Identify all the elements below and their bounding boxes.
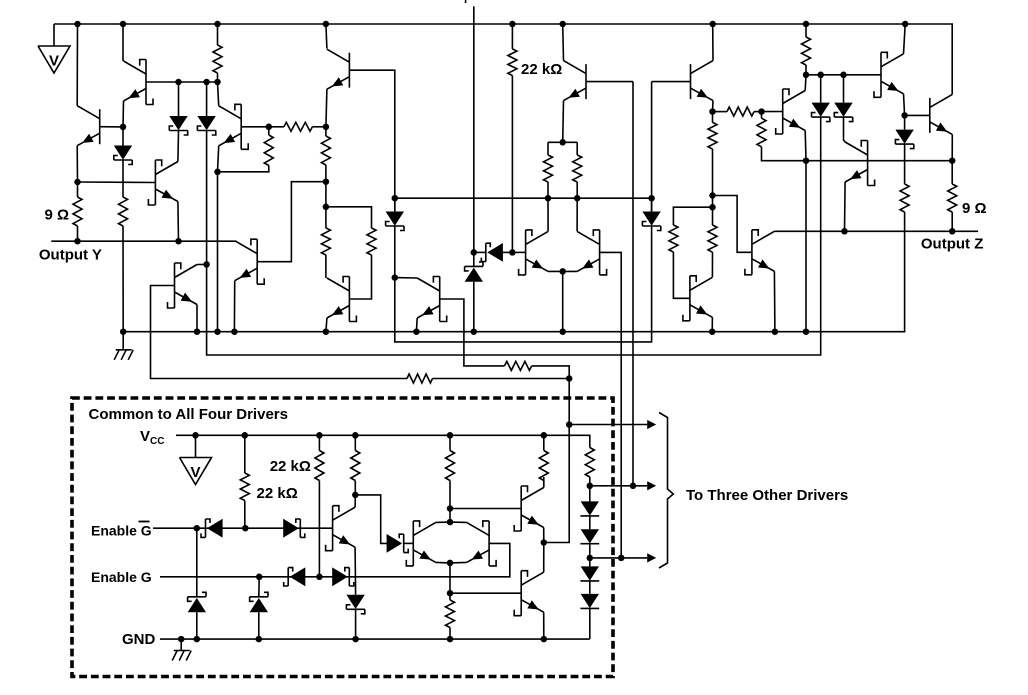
junction R22 bottom xyxy=(242,525,249,532)
wire Q2 collector up xyxy=(76,24,78,106)
wire R25 node to collectors xyxy=(449,509,451,523)
junction R14 bottom xyxy=(709,192,716,199)
wire Q9 emitter down xyxy=(415,318,418,332)
diode D1 xyxy=(169,116,187,135)
transistor Q13 xyxy=(691,61,714,101)
wire Q5 emitter down xyxy=(196,305,198,332)
wire D9 anode xyxy=(843,75,845,103)
wire node to node xyxy=(325,182,327,207)
svg-text:To Three Other Drivers: To Three Other Drivers xyxy=(686,487,848,504)
diode D3 xyxy=(114,146,132,165)
wire resistor pair top xyxy=(548,141,577,143)
resistor R17 xyxy=(727,107,754,116)
junction on rail xyxy=(772,328,779,335)
wire Q6 collector up xyxy=(218,82,219,106)
junction Q11 collector xyxy=(574,195,581,202)
wire stack seg4 xyxy=(589,558,591,567)
wire Q11 collector up xyxy=(576,198,578,231)
wire Q11 base line xyxy=(450,508,521,510)
wire R12 bottom lead xyxy=(547,182,549,198)
wire Q24 emitter down xyxy=(543,612,545,639)
diode D16 xyxy=(284,567,306,586)
transistor Q21 xyxy=(514,486,544,531)
wire Q8 emitter down xyxy=(326,318,327,332)
junction R5 bottom xyxy=(214,169,221,176)
diode D2 xyxy=(197,116,215,135)
wire Q12 base long line xyxy=(632,82,634,486)
transistor Q6 xyxy=(219,104,249,149)
wire Q22 emitter xyxy=(436,561,450,564)
transistor Q5 xyxy=(168,263,198,308)
junction Q10 base node xyxy=(509,249,516,256)
wire R8 bottom lead xyxy=(325,255,327,278)
wire Q12 base xyxy=(586,81,633,83)
svg-text:Output Y: Output Y xyxy=(39,247,102,264)
transistor Q11 xyxy=(577,230,607,275)
wire R20 bottom to rail xyxy=(123,212,904,332)
resistor R1 (bus) xyxy=(213,45,222,73)
junction arrow3 xyxy=(587,555,594,562)
junction node y82 xyxy=(214,79,221,86)
resistor R22 22k xyxy=(240,473,249,501)
junction on GND line xyxy=(352,636,359,643)
resistor R6 xyxy=(284,122,313,131)
resistor R19 xyxy=(802,37,811,65)
resistor R2 9ohm xyxy=(73,197,82,226)
wire node chain xyxy=(712,196,714,208)
wire Q24 collector up xyxy=(543,543,545,573)
junction on rail xyxy=(559,328,566,335)
junction R23 bottom xyxy=(316,574,323,581)
wire Gbar ESD down xyxy=(196,528,198,597)
junction Q5 collector node xyxy=(203,261,210,268)
junction on Vcc line xyxy=(541,432,548,439)
resistor R15 xyxy=(669,225,678,252)
wire Q3 emitter down xyxy=(177,202,180,242)
junction on V+ bus xyxy=(214,21,221,28)
wire D5 top xyxy=(651,198,653,211)
resistor R18 xyxy=(757,118,766,147)
wire R16 bottom xyxy=(711,252,713,277)
wire R9 to Q8 base xyxy=(349,255,371,299)
wire D2 cathode long line xyxy=(207,118,821,355)
junction on V+ bus xyxy=(803,21,810,28)
wire G ESD down xyxy=(258,577,260,597)
svg-text:Output Z: Output Z xyxy=(921,236,983,253)
diode D13 (up) xyxy=(188,592,206,612)
transistor Q19 xyxy=(845,141,875,186)
junction on rail xyxy=(231,328,238,335)
junction Q7 emitter node xyxy=(323,124,330,131)
wire Q18 emitter down xyxy=(951,134,953,160)
wire box ground lead xyxy=(180,639,182,650)
wire Q10 collector up xyxy=(547,198,549,231)
transistor Q7 xyxy=(327,49,350,89)
junction on rail xyxy=(323,328,330,335)
junction R2 on Output Y xyxy=(74,238,81,245)
wire R24 bottom lead xyxy=(354,481,356,495)
wire R23 bottom long xyxy=(318,481,320,577)
junction Enable Gbar xyxy=(194,525,201,532)
transistor Q20 xyxy=(326,506,356,551)
junction on V+ bus xyxy=(323,21,330,28)
junction emitters xyxy=(447,560,454,567)
wire Q7 collector up xyxy=(326,24,327,49)
junction on V+ bus xyxy=(709,21,716,28)
svg-text:22 kΩ: 22 kΩ xyxy=(521,61,562,78)
junction R28 top xyxy=(447,590,454,597)
transistor Q22 xyxy=(406,521,436,566)
wire branch right xyxy=(713,196,752,253)
wire D4 line top xyxy=(394,198,396,211)
junction input node xyxy=(471,249,478,256)
wire D1 anode xyxy=(178,82,180,116)
junction Enable G xyxy=(256,574,263,581)
resistor R7 xyxy=(321,136,330,165)
transistor Q18 xyxy=(930,94,953,134)
wire node182 to Q3 base xyxy=(78,181,156,184)
wire R22 bottom lead xyxy=(244,501,246,529)
resistor R4 (feedback) xyxy=(407,374,433,383)
svg-text:22 kΩ: 22 kΩ xyxy=(270,458,311,475)
diode D4 xyxy=(386,212,404,231)
wire Q23 collector xyxy=(450,521,467,523)
junction on D4 line xyxy=(392,274,399,281)
svg-text:VCC: VCC xyxy=(140,428,164,447)
diode D11 xyxy=(201,519,223,538)
arrow line 2 xyxy=(590,485,647,487)
wire input stub xyxy=(465,0,467,3)
transistor Q17 xyxy=(874,52,904,97)
wire Q7 base xyxy=(349,70,394,211)
wire R14 top lead xyxy=(712,112,714,123)
resistor R16 xyxy=(708,225,717,252)
junction on rail xyxy=(413,328,420,335)
wire to Q18 base xyxy=(905,114,930,116)
wire Q7 emitter down xyxy=(326,89,327,127)
junction Q13 emitter xyxy=(709,108,716,115)
wire D7 bottom xyxy=(473,282,475,332)
wire D6 cathode xyxy=(474,251,486,253)
wire V symbol lead 2 xyxy=(195,435,197,457)
wire Q15 emitter down xyxy=(773,271,776,331)
overline for Gbar xyxy=(139,521,150,523)
svg-text:9 Ω: 9 Ω xyxy=(962,200,987,217)
diode D6 xyxy=(481,243,503,262)
junction on GND line xyxy=(178,636,185,643)
wire R21 top lead xyxy=(951,161,953,184)
wire Q5 collector to node xyxy=(197,263,207,265)
transistor Q12 xyxy=(564,61,587,101)
diode D10 xyxy=(895,130,913,149)
wire Q20 collector up xyxy=(354,495,356,507)
wire Q16 emitter down xyxy=(804,131,807,161)
junction on rail xyxy=(709,328,716,335)
junction on GND line xyxy=(447,636,454,643)
wire R4 to Vcc node xyxy=(433,378,570,380)
svg-text:V: V xyxy=(190,464,200,481)
wire Q4 emitter down xyxy=(233,281,235,332)
junction arrow1 xyxy=(566,421,573,428)
diode D21 xyxy=(580,566,599,581)
diode D15 xyxy=(346,595,364,614)
junction on V+ bus xyxy=(509,21,516,28)
resistor R10 xyxy=(505,361,532,370)
wire Output Z line xyxy=(774,230,978,232)
junction on V+ bus xyxy=(902,21,909,28)
junction node y82 xyxy=(203,79,210,86)
junction R21 top xyxy=(949,157,956,164)
junction on Vcc line xyxy=(447,432,454,439)
wire Q6 base xyxy=(241,126,269,128)
wire Q17 emitter down xyxy=(904,94,905,116)
junction Q19 emitter on Output Z xyxy=(841,228,848,235)
wire T1 collector feed xyxy=(122,24,124,61)
bracket (brace) xyxy=(659,413,673,569)
wire R2 bottom lead xyxy=(77,226,79,241)
wire mirror line xyxy=(395,197,652,199)
wire R1 top lead xyxy=(217,24,219,45)
wire R13 top lead xyxy=(576,142,578,155)
wire R22 top lead xyxy=(244,435,246,473)
wire R7 bottom xyxy=(325,165,327,182)
wire center input line xyxy=(473,6,475,252)
wire Vcc line xyxy=(176,435,590,447)
resistor R13 xyxy=(573,155,582,182)
wire D4 bottom loop xyxy=(395,226,652,342)
svg-text:9 Ω: 9 Ω xyxy=(45,207,70,224)
wire Q23 emitter xyxy=(450,561,467,564)
transistor Q24 xyxy=(514,571,544,616)
svg-text:22 kΩ: 22 kΩ xyxy=(257,485,298,502)
resistor R3 xyxy=(119,197,128,226)
wire R26 top lead xyxy=(543,435,545,450)
wire Q2 emitter down xyxy=(76,146,78,182)
junction diode stack top xyxy=(587,483,594,490)
wire D2 anode xyxy=(206,82,208,116)
ground (box) xyxy=(172,651,191,661)
resistor R12 xyxy=(544,155,553,182)
junction R18 top xyxy=(758,108,765,115)
junction diff pair emitters xyxy=(559,268,566,275)
diode D18 (up) xyxy=(250,592,268,612)
junction node y82 xyxy=(175,79,182,86)
wire R18 bottom loop xyxy=(762,147,953,161)
wire R17 right lead xyxy=(754,111,762,113)
junction on rail xyxy=(214,328,221,335)
wire R8 top lead xyxy=(325,207,327,228)
wire R15 bottom to Q14 base xyxy=(673,252,690,298)
svg-text:GND: GND xyxy=(122,631,156,648)
wire Q2 base xyxy=(100,126,123,128)
junction arrow3 line xyxy=(618,555,625,562)
wire stack seg3 xyxy=(589,544,591,558)
wire D13 bottom xyxy=(196,612,198,639)
junction y160 left xyxy=(803,157,810,164)
junction arrow2 xyxy=(630,483,637,490)
svg-text:Common to All Four Drivers: Common to All Four Drivers xyxy=(89,406,288,423)
wire Q4 base loop xyxy=(257,182,326,262)
wire Q21 emitter down xyxy=(543,528,545,543)
wire Q9 base loop xyxy=(440,299,505,366)
wire R2 top lead xyxy=(77,182,79,197)
wire Q17 collector up xyxy=(904,24,906,54)
junction R2 top xyxy=(74,179,81,186)
wire Q22 collector xyxy=(436,521,450,523)
diode D5 xyxy=(642,212,660,231)
wire D8 anode xyxy=(820,75,822,103)
wire R7 leads xyxy=(325,127,327,136)
dashed box (Common to All Four Drivers) xyxy=(72,398,613,677)
schottky diode D1 xyxy=(0,0,1,1)
wire D3 anode xyxy=(122,127,124,146)
wire R27 bottom lead xyxy=(589,477,591,486)
wire bias feed xyxy=(544,379,569,543)
wire D3 cathode lead xyxy=(122,160,124,197)
wire R18 top lead xyxy=(761,112,763,119)
wire D6 anode xyxy=(502,251,513,253)
diode D14 xyxy=(387,534,409,553)
wire R14 bottom xyxy=(712,149,714,196)
junction Q4 base node xyxy=(323,178,330,185)
wire R11 top lead xyxy=(511,24,513,49)
wire Enable G line xyxy=(160,543,510,576)
wire R13 bottom lead xyxy=(576,182,578,198)
wire D7 top xyxy=(473,252,475,266)
wire R17 left lead xyxy=(713,111,728,113)
junction on rail xyxy=(471,328,478,335)
transistor Q1 xyxy=(124,60,154,105)
wire D9 cathode xyxy=(844,117,846,142)
wire D15 bottom xyxy=(355,610,357,640)
junction resistor pair top xyxy=(559,139,566,146)
wire to Q24 base xyxy=(450,592,521,594)
wire y75 line xyxy=(806,74,881,76)
junction R25 bottom xyxy=(447,505,454,512)
wire R16 top lead xyxy=(712,207,714,225)
wire Q13 emitter down xyxy=(712,101,715,112)
wire R19 bottom lead xyxy=(805,65,807,75)
wire R6 right lead xyxy=(312,126,326,128)
junction y75 xyxy=(840,72,847,79)
ground (rail) xyxy=(114,350,133,360)
wire R6 left lead xyxy=(269,126,284,128)
junction bias node xyxy=(566,375,573,382)
wire R9 branch xyxy=(326,207,372,228)
wire stack seg5 xyxy=(589,581,591,594)
wire Q16 collector up xyxy=(804,75,807,91)
resistor R20 xyxy=(900,184,909,212)
junction Q10 collector xyxy=(545,195,552,202)
wire R28 top lead xyxy=(449,593,451,600)
junction on rail xyxy=(120,328,127,335)
resistor R28 xyxy=(446,600,455,628)
junction on GND line xyxy=(194,636,201,643)
resistor R26 xyxy=(539,451,548,481)
wire Q21 collector up xyxy=(543,477,545,488)
diode D8 xyxy=(812,103,830,122)
junction R5 top xyxy=(266,124,273,131)
transistor Q10 xyxy=(519,230,549,275)
wire R26 bottom lead xyxy=(543,481,545,488)
transistor Q8 xyxy=(327,277,357,322)
resistor R27 xyxy=(585,448,594,478)
diode D9 xyxy=(834,103,852,122)
junction on V+ bus xyxy=(559,21,566,28)
wire Q9 collector xyxy=(395,277,417,279)
wire Q6 emitter down xyxy=(218,146,219,332)
wire emitters join xyxy=(548,270,577,272)
junction Q18 base xyxy=(901,112,908,119)
wire Q12 emitter down xyxy=(562,101,565,143)
resistor R8 xyxy=(321,228,330,255)
junction y75 xyxy=(817,72,824,79)
wire down to rail xyxy=(805,161,807,332)
wire R24 top lead xyxy=(354,435,356,450)
junction on Vcc line xyxy=(242,432,249,439)
wire emitters down xyxy=(449,563,451,593)
junction on rail xyxy=(803,328,810,335)
wire R28 bottom lead xyxy=(449,628,451,640)
transistor Q9 xyxy=(417,277,447,322)
wire R5 top lead xyxy=(268,127,270,135)
power symbol V (top left) xyxy=(38,46,70,73)
wire Q14 emitter down xyxy=(711,317,713,331)
junction y75 xyxy=(803,72,810,79)
wire R19 top lead xyxy=(805,24,807,37)
junction on Vcc line xyxy=(192,432,199,439)
wire V symbol lead xyxy=(53,24,55,46)
wire R1 bottom lead xyxy=(217,73,219,82)
diode D20 xyxy=(580,529,599,544)
svg-text:Enable G: Enable G xyxy=(91,523,152,539)
power symbol V (box) xyxy=(180,458,212,485)
junction Q21 emitter node xyxy=(541,539,548,546)
svg-text:Enable G: Enable G xyxy=(91,569,152,585)
transistor Q3 xyxy=(148,160,178,205)
junction on V+ bus xyxy=(120,21,127,28)
wire stack seg1 xyxy=(589,486,591,504)
wire R10 to Vcc node xyxy=(532,366,570,379)
resistor R9 xyxy=(367,228,376,255)
wire R11 bottom long xyxy=(511,76,513,253)
arrow line 1 xyxy=(569,424,647,426)
wire Enable Gbar line xyxy=(153,527,333,529)
diode D7 (up) xyxy=(465,262,483,282)
resistor R25 xyxy=(446,451,455,481)
wire Q12 collector up xyxy=(562,24,565,61)
resistor R11 22k xyxy=(508,49,517,76)
wire Output Y line xyxy=(51,240,234,242)
wire Q13 base xyxy=(652,81,691,83)
transistor Q16 xyxy=(776,89,806,134)
junction on rail xyxy=(194,328,201,335)
transistor Q2 xyxy=(77,106,100,146)
wire R23 top lead xyxy=(318,435,320,450)
junction R21 on Output Z xyxy=(949,228,956,235)
junction D4 top xyxy=(392,195,399,202)
resistor R24 xyxy=(351,451,360,481)
wire GND line xyxy=(160,638,590,640)
junction on GND line xyxy=(541,636,548,643)
wire diff tail xyxy=(562,271,564,331)
wire R25 bottom lead xyxy=(449,481,451,509)
wire Q13 collector up xyxy=(712,24,714,61)
junction collectors xyxy=(447,519,454,526)
wire Q1 emitter down xyxy=(122,101,125,127)
resistor R21 9ohm xyxy=(948,184,957,212)
svg-text:V: V xyxy=(49,53,59,70)
